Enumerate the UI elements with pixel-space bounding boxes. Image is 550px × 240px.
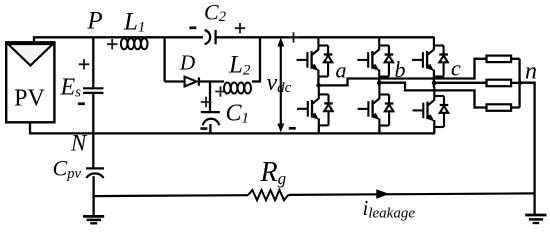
plus sign Es [79, 59, 89, 69]
wire: leg c midpoint [433, 77, 435, 88]
wire: C1 top lead [209, 82, 211, 112]
plus sign C1 [201, 97, 211, 107]
wire: Es to N rail and below [92, 94, 94, 168]
minus sign C1 [200, 127, 207, 130]
svg-text:N: N [70, 131, 88, 156]
transistor S2 (leg a lower IGBT with antiparallel diode) [297, 85, 333, 125]
wire: C1 bottom lead [209, 124, 211, 133]
svg-text:PV: PV [14, 86, 45, 112]
transistor S1 (leg a upper IGBT with antiparallel diode) [297, 37, 333, 77]
wire: Cpv to ground [92, 176, 94, 216]
node dot leg a [316, 83, 321, 88]
plus sign L2 [215, 86, 225, 96]
PV panel [6, 42, 54, 122]
plus sign vdc [288, 32, 298, 42]
wire: L2 to right vertical and up to rail [252, 37, 260, 81]
wire: phase a output [319, 59, 487, 86]
minus sign Es [78, 102, 85, 105]
wire: left vertical of D branch [163, 37, 165, 81]
ground (right) [525, 193, 546, 223]
minus sign vdc [289, 127, 296, 130]
wire: leg b bottom stub [378, 126, 380, 134]
inductor L1 [121, 38, 148, 49]
wire: phase b output [379, 83, 486, 108]
node dot leg b [377, 80, 382, 85]
capacitor C2 (in top rail) [205, 30, 216, 44]
node dot leg c [432, 81, 437, 86]
wire: diode cathode to L2 [199, 80, 224, 82]
resistor (grid phase c) [487, 80, 512, 87]
wire: PV bottom to bottom rail [30, 122, 435, 134]
svg-text:P: P [86, 8, 102, 35]
svg-text:c: c [451, 56, 461, 81]
ground (left) [83, 216, 104, 223]
resistor Rg (zigzag) [248, 190, 288, 200]
wire: phase c output [434, 82, 486, 84]
vdc measurement arrow [277, 38, 284, 133]
svg-text:a: a [336, 58, 347, 83]
transistor S6 (leg c lower IGBT with antiparallel diode) [413, 87, 449, 127]
diode D [185, 77, 199, 87]
wire: leakage return (left of Rg) [94, 194, 248, 197]
transistor S3 (leg b upper IGBT with antiparallel diode) [357, 37, 393, 77]
svg-text:D: D [179, 51, 195, 75]
wire: top rail from C2 to inverter top right corner [217, 36, 434, 38]
capacitor C1 [201, 112, 220, 125]
transistor S5 (leg c upper IGBT with antiparallel diode) [412, 37, 448, 77]
wire: leg a bottom stub [318, 125, 320, 133]
resistor (grid phase a) [487, 56, 512, 63]
wire: resistor right leads and common vertical [511, 59, 519, 108]
transistor S4 (leg b lower IGBT with antiparallel diode) [358, 86, 394, 126]
inductor L2 [224, 83, 251, 94]
capacitor Es [83, 88, 103, 93]
wire: P vertical to Es [92, 37, 94, 87]
wire: leg b midpoint [378, 77, 380, 86]
wire: D branch to diode [165, 80, 185, 82]
wire: PV top to top rail (left section up to C2) [34, 37, 203, 43]
plus sign C2 [235, 23, 245, 33]
wire: leg c bottom stub [433, 127, 435, 133]
wire: leg a midpoint [317, 77, 319, 86]
capacitor Cpv [86, 168, 104, 178]
leakage current arrow [376, 189, 389, 198]
resistor (grid phase b) [487, 104, 512, 111]
wire: n to right vertical drop [520, 83, 535, 194]
wire: leakage return (right of Rg) [288, 193, 534, 195]
plus sign L1 [107, 39, 117, 49]
minus sign C2 [189, 26, 196, 29]
node n dot [518, 80, 523, 85]
svg-text:n: n [525, 59, 537, 85]
